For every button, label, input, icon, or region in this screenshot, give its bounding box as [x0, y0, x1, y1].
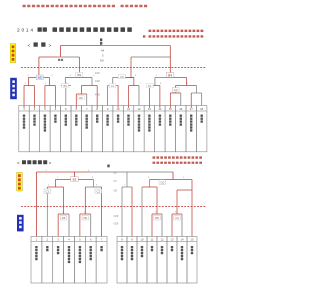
- champion marker: [100, 38, 102, 41]
- label B9: [76, 72, 83, 77]
- QF child drop: [64, 78, 66, 86]
- R2 pair: [129, 85, 139, 87]
- label B8: [78, 96, 85, 100]
- label C4 lower: [174, 215, 181, 220]
- R3 pair 17-18: [191, 92, 201, 94]
- team 16 line: [180, 93, 182, 106]
- left pair 1: [58, 213, 69, 215]
- svg-text:11: 11: [127, 107, 130, 111]
- lower top line left (red): [36, 171, 90, 173]
- label B3: [71, 177, 78, 182]
- team box 4: [50, 106, 60, 152]
- leftmost team long red riser: [35, 172, 37, 237]
- R2 pair: [149, 85, 159, 87]
- svg-text:4/28: 4/28: [95, 80, 100, 83]
- label C0: [159, 180, 166, 184]
- svg-text:B9: B9: [78, 73, 82, 77]
- team 11 line: [128, 86, 130, 109]
- label C2: [95, 189, 102, 193]
- svg-text:C4: C4: [174, 88, 178, 92]
- svg-text:14: 14: [181, 238, 184, 242]
- team 18 line: [201, 93, 203, 106]
- label D1: [146, 84, 153, 88]
- right junction v1: [122, 186, 132, 188]
- label C4: [172, 88, 179, 92]
- legend winner line1: [149, 30, 204, 32]
- team 13 line: [148, 86, 150, 109]
- svg-text:D6: D6: [84, 216, 88, 220]
- team box 15: [165, 106, 175, 152]
- svg-text:D1: D1: [148, 84, 152, 88]
- lower team 8 line: [121, 187, 123, 237]
- yellow label dai-3-shiai: [17, 172, 23, 191]
- B riser red: [79, 57, 81, 78]
- right final child drop 2: [191, 180, 193, 191]
- svg-text:B8: B8: [79, 96, 83, 100]
- B deep riser: [81, 86, 83, 95]
- red dashed line upper: [21, 67, 206, 69]
- left group final (red): [55, 179, 93, 181]
- team box 11: [123, 106, 133, 152]
- B4 riser red: [169, 57, 171, 78]
- lower team 7 line: [101, 187, 103, 237]
- QF C: [113, 77, 134, 79]
- svg-text:2014: 2014: [17, 28, 35, 34]
- label D6: [82, 215, 89, 220]
- yellow label dai-2-shiai: [10, 44, 16, 63]
- R3 pair 15-16: [170, 92, 180, 94]
- right semi child drop: [156, 187, 158, 214]
- team box 7: [82, 106, 92, 152]
- lower box 8: [117, 237, 127, 284]
- svg-text:A4: A4: [101, 49, 105, 53]
- svg-text:10: 10: [117, 107, 121, 111]
- QF child drop: [91, 78, 93, 86]
- lower box 5: [74, 237, 85, 284]
- team box 8: [92, 106, 102, 152]
- left pair 2: [80, 213, 91, 215]
- team box 18: [196, 106, 206, 152]
- QF B4 left: [155, 77, 171, 79]
- h riser: [195, 86, 197, 94]
- red dashed line lower: [21, 206, 206, 208]
- lower box 3: [53, 237, 64, 284]
- B pair right: [82, 85, 98, 87]
- team 3 line: [44, 86, 46, 109]
- lower team 13 line: [171, 214, 173, 237]
- lower team 6 line: [90, 214, 92, 237]
- svg-text:C9: C9: [120, 75, 124, 79]
- svg-text:13: 13: [148, 107, 152, 111]
- left semi child drop: [63, 187, 65, 214]
- lower box 11: [147, 237, 157, 284]
- right junction j_b: [177, 189, 192, 191]
- svg-text:B4: B4: [168, 73, 172, 77]
- team 18 line lower: [191, 190, 193, 237]
- B deep pair 6-7: [76, 93, 86, 95]
- title kanji nendo: [38, 27, 47, 31]
- final line right: [101, 45, 170, 47]
- left final child drop 2: [93, 180, 95, 188]
- final left drop (red): [60, 46, 62, 58]
- lower champion marker: [107, 165, 109, 168]
- team 10 line: [117, 86, 119, 109]
- QF child drop: [48, 78, 50, 86]
- label D8: [154, 215, 161, 220]
- svg-text:<: <: [17, 161, 20, 166]
- team box 1: [19, 106, 29, 152]
- team 9 line: [107, 86, 109, 106]
- svg-text:D5: D5: [62, 216, 66, 220]
- label C9: [118, 74, 125, 79]
- team 17 line: [190, 93, 192, 108]
- QF A3 (red): [28, 77, 49, 79]
- title kanji summer teeball tokyo taikai: [53, 27, 132, 32]
- lower box 6: [85, 237, 96, 284]
- QF child drop: [133, 78, 135, 86]
- lower box 9: [127, 237, 137, 284]
- svg-text:6/6: 6/6: [100, 59, 104, 63]
- A3 riser red: [38, 57, 40, 78]
- left semi child drop 2: [84, 187, 86, 214]
- legend runner-up line2: [143, 35, 145, 37]
- team box 16: [176, 106, 186, 152]
- team box 13: [144, 106, 154, 152]
- C riser red: [130, 57, 132, 78]
- semifinal left red part: [39, 56, 59, 58]
- team box 12: [134, 106, 144, 152]
- semifinal right: [131, 56, 170, 58]
- lower team 2 line: [46, 187, 48, 237]
- team 5 line: [65, 86, 67, 106]
- QF child drop: [154, 78, 156, 86]
- team 7 line: [86, 94, 88, 106]
- QF child drop: [27, 78, 29, 86]
- team 1 line: [23, 86, 25, 109]
- svg-text:A3: A3: [38, 76, 42, 80]
- svg-text:C0: C0: [160, 180, 164, 184]
- team 6 line: [75, 94, 77, 108]
- R2 pair: [45, 85, 55, 87]
- lower team 14 line: [181, 214, 183, 237]
- team 2 line: [33, 86, 35, 109]
- lower box 10: [137, 237, 147, 284]
- team box 14: [155, 106, 165, 152]
- lower box 12: [157, 237, 167, 284]
- right pair 2: [172, 213, 182, 215]
- right group final: [150, 179, 193, 181]
- QF B (red): [65, 77, 92, 79]
- blue label dai-1-shiai: [10, 78, 17, 99]
- legend 3rd place: [153, 156, 203, 158]
- svg-text:6/29: 6/29: [114, 223, 119, 226]
- lower box 4: [64, 237, 75, 284]
- team 15 line: [169, 93, 171, 108]
- left final child drop: [54, 180, 56, 188]
- svg-text:B3: B3: [73, 178, 77, 182]
- lower top line right: [90, 171, 173, 173]
- right final child drop: [149, 180, 151, 188]
- left group winner riser: [74, 172, 76, 180]
- label D5: [60, 215, 67, 220]
- team box 6: [71, 106, 81, 152]
- QF C red right part: [122, 77, 134, 79]
- team box 2: [29, 106, 39, 152]
- team 12 line: [138, 86, 140, 106]
- svg-text:13: 13: [171, 238, 174, 242]
- lower box 1: [31, 237, 42, 284]
- winner name near SF: [58, 59, 63, 61]
- svg-text:14: 14: [158, 107, 162, 111]
- R2 pair: [24, 85, 34, 87]
- lower team 12 line: [161, 214, 163, 237]
- R2 pair: [108, 85, 118, 87]
- g riser: [175, 86, 177, 94]
- svg-text:10: 10: [141, 238, 144, 242]
- lower box 14: [177, 237, 187, 284]
- R2 G pair: [176, 85, 197, 87]
- team box 5: [61, 106, 71, 152]
- legend 4th place: [153, 162, 203, 164]
- team 8 line: [96, 86, 98, 109]
- lower box 2: [42, 237, 53, 284]
- final right drop (red): [169, 46, 171, 58]
- lower team 10 line: [141, 187, 143, 237]
- svg-text:6/28: 6/28: [114, 215, 119, 218]
- team 14 line: [159, 86, 161, 109]
- semifinal left gray part: [59, 56, 79, 58]
- QF child drop: [112, 78, 114, 86]
- svg-text:11: 11: [151, 238, 154, 242]
- svg-text:15: 15: [169, 107, 173, 111]
- lower team 9 line: [131, 187, 133, 237]
- right semi child drop 2: [176, 190, 178, 214]
- lower box 13: [167, 237, 177, 284]
- svg-text:>: >: [49, 161, 52, 166]
- svg-text:15: 15: [191, 238, 194, 242]
- QF child drop: [186, 78, 188, 86]
- right junction j_a: [142, 186, 157, 188]
- team box 9: [102, 106, 112, 152]
- label B4: [166, 73, 174, 78]
- right pair 1: [152, 213, 162, 215]
- lower team 11 line: [151, 214, 153, 237]
- team 4 line: [54, 86, 56, 109]
- lower box 7: [96, 237, 107, 284]
- right group winner riser: [172, 172, 174, 180]
- svg-text:D8: D8: [155, 216, 159, 220]
- svg-text:16: 16: [179, 107, 183, 111]
- svg-text:17: 17: [190, 107, 194, 111]
- label A3: [36, 75, 43, 80]
- svg-text:18: 18: [200, 107, 204, 111]
- svg-text:4/26: 4/26: [95, 72, 100, 75]
- svg-text:C4: C4: [175, 216, 179, 220]
- svg-text:12: 12: [161, 238, 164, 242]
- team box 3: [40, 106, 50, 152]
- lower team 3 line: [57, 214, 59, 237]
- lower team 4 line: [68, 214, 70, 237]
- B pair left: [61, 85, 71, 87]
- svg-text:12: 12: [137, 107, 141, 111]
- svg-text:C2: C2: [97, 190, 101, 194]
- blue label dai-4-shiai: [17, 215, 24, 232]
- label B5: [62, 84, 69, 88]
- lower team 5 line: [79, 214, 81, 237]
- svg-text:>: >: [49, 43, 52, 49]
- svg-text:C1: C1: [111, 84, 115, 88]
- left semi a: [47, 186, 63, 188]
- svg-text:4/28: 4/28: [95, 94, 100, 97]
- label C1: [44, 189, 51, 193]
- QF B4 right (red): [171, 77, 187, 79]
- label C1: [109, 84, 116, 88]
- svg-text:<: <: [28, 43, 31, 49]
- red top title line: [23, 5, 116, 8]
- team box 10: [113, 106, 123, 152]
- left semi b: [85, 186, 101, 188]
- lower box 15: [187, 237, 197, 284]
- v1 riser to top: [126, 172, 128, 187]
- team box 17: [186, 106, 196, 152]
- svg-text:C1: C1: [46, 190, 50, 194]
- final line left (red): [61, 45, 101, 47]
